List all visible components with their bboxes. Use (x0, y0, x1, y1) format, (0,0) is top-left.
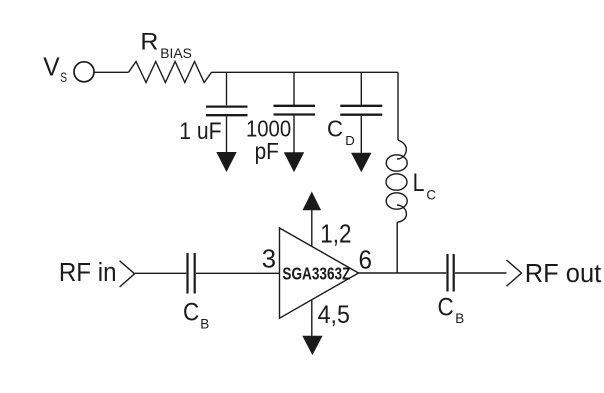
label CB input (183, 299, 209, 332)
svg-text:B: B (455, 310, 464, 326)
svg-text:B: B (200, 316, 209, 332)
wire output (359, 272, 447, 274)
capacitor CD (340, 72, 382, 153)
svg-text:C: C (327, 115, 343, 141)
label LC (413, 169, 436, 203)
svg-text:L: L (413, 169, 425, 197)
wire (396, 222, 398, 273)
svg-text:1,2: 1,2 (320, 219, 351, 249)
svg-text:RF in: RF in (59, 259, 117, 287)
capacitor CB output (448, 254, 454, 292)
wire pin 1,2 stem (311, 210, 313, 246)
svg-text:3: 3 (262, 244, 276, 274)
wire top rail (212, 71, 399, 73)
svg-text:1 uF: 1 uF (179, 118, 221, 145)
svg-text:C: C (183, 299, 199, 327)
terminal Vs (74, 62, 94, 82)
wire (196, 272, 280, 274)
wire (397, 72, 399, 140)
svg-text:C: C (438, 294, 454, 322)
svg-text:4,5: 4,5 (318, 301, 350, 329)
capacitor 1000pF (274, 72, 316, 152)
capacitor 1uF (206, 72, 248, 152)
ground (284, 152, 304, 172)
op-amp U1 triangle (280, 228, 359, 318)
svg-text:S: S (60, 69, 67, 85)
wire (455, 272, 507, 274)
node input chevron RF in (120, 261, 135, 287)
svg-text:RF out: RF out (525, 260, 601, 288)
capacitor CB input (188, 253, 195, 294)
node output chevron RF out (507, 260, 522, 286)
ground (216, 152, 236, 172)
label CD (327, 115, 355, 148)
label RBIAS (140, 28, 191, 61)
wire (94, 71, 129, 73)
inductor LC (386, 140, 407, 222)
resistor RBIAS (129, 62, 212, 83)
svg-text:SGA3363Z: SGA3363Z (282, 264, 350, 284)
ground arrow up pins 1,2 (303, 192, 322, 211)
wire (135, 272, 186, 274)
value 1000 pF (246, 116, 291, 164)
svg-text:BIAS: BIAS (160, 46, 192, 61)
wire pin 4,5 stem (311, 300, 313, 336)
svg-text:C: C (426, 186, 436, 202)
svg-text:V: V (43, 54, 59, 82)
svg-text:pF: pF (255, 138, 279, 164)
label CB output (438, 294, 465, 327)
svg-text:6: 6 (359, 244, 373, 274)
svg-text:D: D (345, 133, 355, 148)
label Vs (43, 54, 67, 85)
svg-text:R: R (140, 28, 158, 55)
ground arrow down pins 4,5 (302, 336, 322, 355)
ground (351, 153, 371, 173)
